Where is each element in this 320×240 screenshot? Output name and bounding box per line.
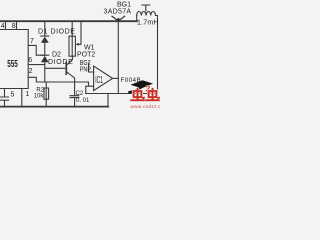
svg-text:C2: C2 [76,91,84,97]
svg-text:8: 8 [12,23,16,30]
svg-text:7: 7 [30,38,34,45]
svg-text:5: 5 [11,92,15,99]
svg-text:PNP: PNP [80,66,91,74]
svg-text:DIODE: DIODE [48,59,73,66]
svg-text:IC1: IC1 [95,74,103,85]
svg-text:BG1: BG1 [117,2,131,9]
svg-text:4: 4 [1,23,5,30]
svg-text:555: 555 [7,58,18,70]
svg-text:0. 01: 0. 01 [76,98,90,104]
svg-text:D2: D2 [52,51,61,58]
svg-text:POT2: POT2 [77,51,95,58]
svg-text:6: 6 [28,57,32,64]
svg-text:10k: 10k [34,94,45,100]
svg-text:D1 DIODE: D1 DIODE [38,28,75,35]
svg-text:2: 2 [29,68,33,75]
svg-text:1.7mH: 1.7mH [137,20,159,27]
svg-text:1: 1 [26,91,30,98]
svg-text:3AD57A: 3AD57A [104,9,132,16]
svg-text:www.cndzz.c: www.cndzz.c [131,104,161,109]
